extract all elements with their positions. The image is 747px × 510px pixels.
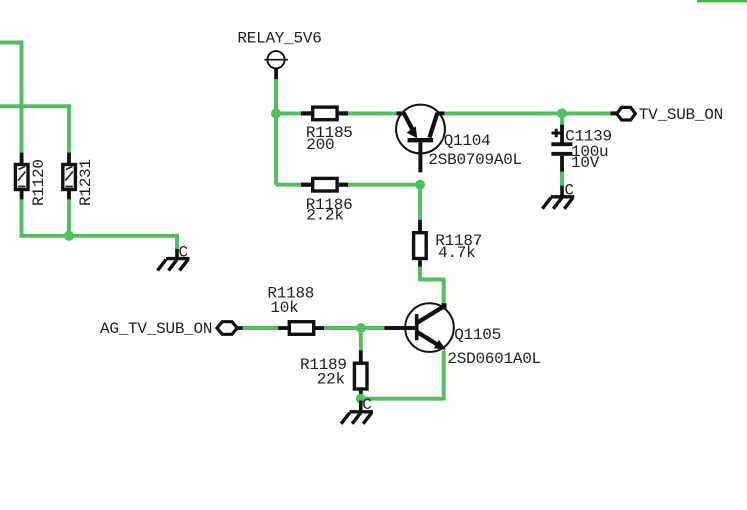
node junction emitter/R1189/ground	[356, 394, 366, 404]
node junction C1139 tap	[557, 108, 567, 118]
wire base node down to R1187	[418, 185, 422, 221]
resistor R1189	[354, 350, 367, 396]
svg-text:200: 200	[306, 136, 334, 154]
svg-text:R1231: R1231	[77, 159, 95, 206]
resistor R1187	[414, 220, 427, 267]
node junction R1188/R1189/base	[356, 323, 366, 333]
svg-text:C: C	[179, 243, 188, 261]
decorative top-right green bar	[697, 0, 747, 2]
wire net-B second horizontal and vertical	[0, 106, 69, 152]
node junction R1231/ground rail	[64, 231, 74, 241]
power symbol RELAY_5V6	[264, 51, 288, 79]
resistor R1231	[63, 153, 76, 200]
svg-text:TV_SUB_ON: TV_SUB_ON	[639, 106, 723, 124]
wire R1187 to Q1105 collector	[420, 267, 444, 306]
svg-text:C: C	[565, 182, 574, 200]
wire R1186 right to base node	[348, 183, 420, 187]
capacitor C1139	[551, 125, 572, 172]
wire R1185 right to Q1104	[348, 111, 397, 115]
ground C left	[158, 249, 190, 271]
node junction base of Q1104 / R1186 / R1187	[415, 180, 425, 190]
svg-text:10k: 10k	[270, 299, 298, 317]
ground C bottom	[341, 401, 373, 424]
svg-text:AG_TV_SUB_ON: AG_TV_SUB_ON	[100, 320, 212, 338]
svg-text:10V: 10V	[571, 154, 600, 172]
svg-text:2SB0709A0L: 2SB0709A0L	[428, 151, 522, 169]
svg-text:R1120: R1120	[30, 159, 48, 206]
node junction rail/R1185	[271, 108, 281, 118]
port AG_TV_SUB_ON	[217, 322, 243, 335]
wire C1139 top stub	[560, 113, 564, 126]
svg-text:22k: 22k	[317, 370, 345, 388]
wire R1188 right to junction	[324, 326, 385, 330]
resistor R1120	[15, 153, 28, 200]
wire R1185 left	[276, 111, 302, 115]
svg-text:Q1105: Q1105	[454, 326, 501, 344]
transistor Q1104	[396, 105, 445, 173]
resistor R1185	[301, 107, 348, 120]
resistor R1188	[278, 322, 324, 335]
wire bottom of R1120 down to ground rail	[22, 199, 178, 250]
wire bottom of R1231 to ground rail	[67, 199, 71, 236]
wire AG port to R1188	[243, 326, 280, 330]
wire C1139 to ground	[560, 172, 564, 186]
wire Q1104 collector to TV_SUB_ON	[445, 111, 612, 115]
transistor Q1105	[384, 303, 454, 352]
resistor R1186	[301, 178, 348, 191]
svg-text:C: C	[362, 396, 371, 414]
wire junction down to R1189	[359, 328, 363, 351]
wire net-A top-left horizontal and vertical	[0, 43, 22, 153]
ground C under C1139	[542, 186, 574, 209]
svg-text:2.2k: 2.2k	[306, 207, 343, 225]
wire RELAY_5V6 vertical rail	[274, 79, 278, 185]
wire Q1105 emitter down and left	[361, 351, 444, 399]
svg-text:2SD0601A0L: 2SD0601A0L	[447, 350, 541, 368]
wire R1186 left	[276, 183, 302, 187]
port TV_SUB_ON	[611, 107, 636, 120]
svg-text:4.7k: 4.7k	[438, 244, 475, 262]
svg-text:RELAY_5V6: RELAY_5V6	[237, 29, 321, 47]
svg-text:Q1104: Q1104	[444, 132, 491, 150]
